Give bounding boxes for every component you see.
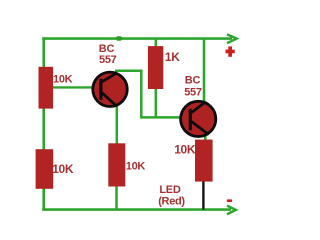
resistor R2 10K (bottom left) xyxy=(36,149,54,189)
svg-text:557: 557 xyxy=(99,54,117,66)
transistor Q1 emitter stroke xyxy=(102,73,117,82)
wire: R1 to Q1 base xyxy=(51,86,95,88)
transistor Q1 BC557 body xyxy=(93,72,127,106)
wire: R3 down to bottom rail xyxy=(115,184,118,210)
plus supply symbol xyxy=(226,46,235,56)
wire: LED black lead from R5 to bottom rail xyxy=(202,180,204,210)
svg-text:10K: 10K xyxy=(126,161,146,173)
node: junction blob on top rail xyxy=(116,36,122,41)
wire: 1K resistor down to Q2 base wire xyxy=(155,87,158,118)
wire: top rail arrowhead xyxy=(227,34,237,43)
svg-text:BC: BC xyxy=(185,74,201,86)
svg-text:LED: LED xyxy=(159,184,180,196)
svg-text:10K: 10K xyxy=(53,74,73,86)
wire: bottom negative rail xyxy=(42,208,231,211)
wire: top rail down to Q2 emitter xyxy=(203,39,206,102)
wire: bottom rail arrowhead xyxy=(227,206,236,215)
transistor Q2 base bar xyxy=(189,109,192,131)
wire: top positive rail xyxy=(42,37,232,40)
wire: left vertical rail xyxy=(42,37,45,209)
transistor Q1 base bar xyxy=(99,79,102,100)
transistor Q2 BC557 body xyxy=(181,101,216,136)
svg-text:(Red): (Red) xyxy=(158,196,185,208)
transistor Q2 collector stroke xyxy=(192,122,209,135)
wire: Q1 collector down to R3 xyxy=(116,104,119,145)
wire: top rail to 1K resistor xyxy=(155,39,158,48)
resistor R3 10K (middle bottom) xyxy=(108,143,125,186)
svg-text:1K: 1K xyxy=(165,50,180,64)
resistor R4 1K (top middle) xyxy=(148,46,163,89)
svg-text:10K: 10K xyxy=(52,162,74,176)
minus supply symbol xyxy=(227,199,232,202)
transistor Q1 collector stroke xyxy=(102,93,116,106)
wire: Q1 emitter over to Q2 base (with drop at x=141) xyxy=(115,71,182,118)
transistor Q2 emitter stroke xyxy=(192,102,206,113)
svg-text:557: 557 xyxy=(184,87,202,99)
resistor R5 10K (right, LED series) xyxy=(195,140,213,182)
svg-text:10K: 10K xyxy=(174,143,196,157)
wire: Q2 collector to R5 xyxy=(204,128,207,141)
resistor R1 10K (top left) xyxy=(39,67,54,109)
